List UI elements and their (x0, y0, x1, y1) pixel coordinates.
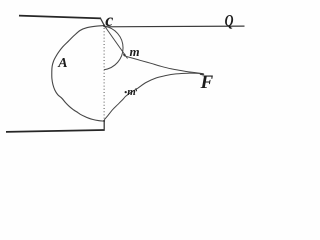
svg-text:A: A (57, 56, 67, 71)
svg-text:m: m (127, 86, 136, 98)
svg-text:c: c (105, 10, 113, 30)
svg-text:m: m (130, 44, 140, 59)
svg-text:Q: Q (225, 12, 234, 30)
svg-text:F: F (200, 72, 214, 93)
